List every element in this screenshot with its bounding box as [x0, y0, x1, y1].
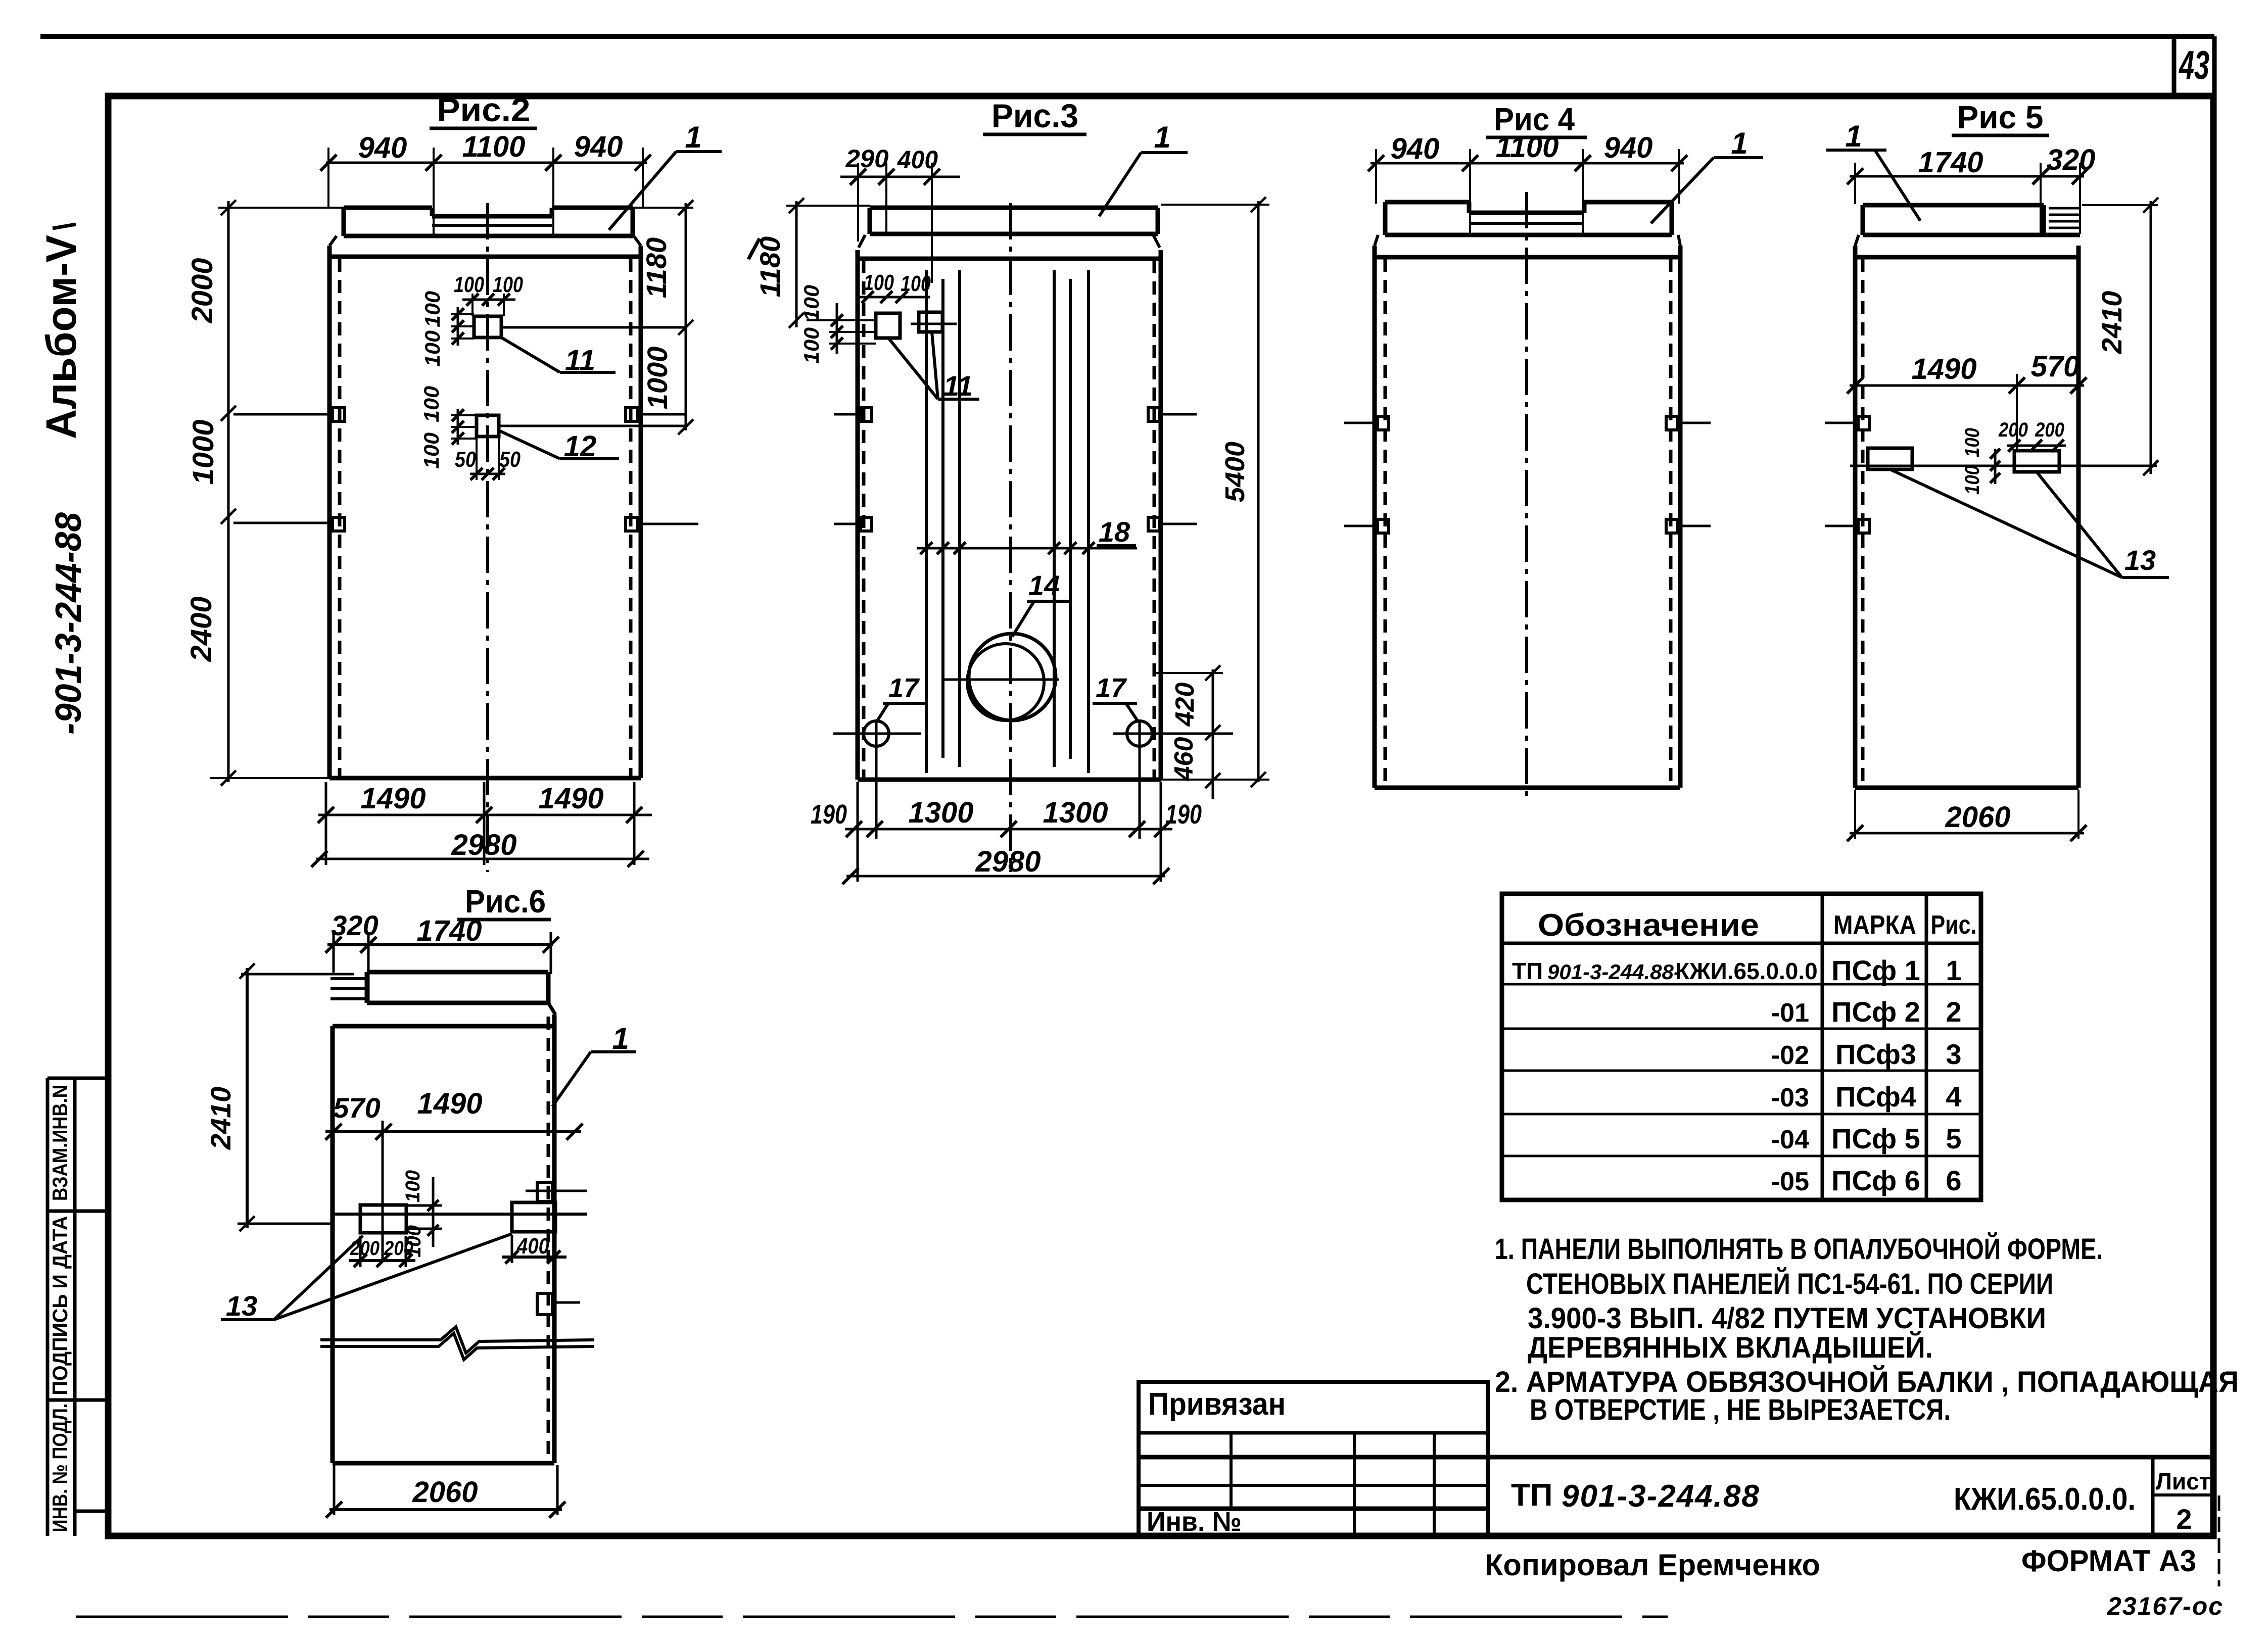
svg-text:6: 6	[1946, 1165, 1961, 1196]
svg-text:5400: 5400	[1220, 442, 1250, 502]
svg-text:2060: 2060	[1945, 801, 2010, 834]
svg-text:1490: 1490	[417, 1087, 482, 1120]
svg-text:17: 17	[888, 673, 920, 703]
svg-text:-901-3-244-88: -901-3-244-88	[49, 512, 89, 735]
svg-text:2410: 2410	[2096, 291, 2128, 355]
svg-text:50: 50	[499, 447, 521, 472]
svg-text:901-3-244.88: 901-3-244.88	[1562, 1479, 1760, 1514]
svg-text:11: 11	[565, 344, 595, 377]
svg-text:100: 100	[1961, 465, 1983, 495]
svg-text:СТЕНОВЫХ ПАНЕЛЕЙ ПС1-54-61.: СТЕНОВЫХ ПАНЕЛЕЙ ПС1-54-61. ПО СЕРИИ	[1526, 1268, 2053, 1300]
svg-text:100: 100	[420, 291, 444, 327]
svg-text:460: 460	[1169, 737, 1199, 782]
svg-text:940: 940	[358, 131, 407, 164]
svg-text:100: 100	[403, 1225, 425, 1258]
svg-text:100: 100	[454, 272, 484, 297]
svg-text:ТП: ТП	[1512, 958, 1543, 984]
svg-text:Привязан: Привязан	[1148, 1387, 1286, 1422]
svg-text:ПСф 6: ПСф 6	[1831, 1165, 1920, 1196]
svg-text:1740: 1740	[1918, 146, 1983, 179]
svg-text:1100: 1100	[1496, 131, 1559, 164]
svg-text:1: 1	[1731, 126, 1747, 160]
svg-text:190: 190	[1165, 799, 1202, 830]
svg-text:ПСф 1: ПСф 1	[1831, 954, 1920, 986]
svg-text:КЖИ.65.0.0.0.: КЖИ.65.0.0.0.	[1954, 1482, 2136, 1517]
svg-text:ТП: ТП	[1511, 1478, 1552, 1513]
svg-text:100: 100	[901, 271, 931, 296]
svg-text:290: 290	[845, 144, 888, 173]
svg-text:1: 1	[1845, 119, 1862, 153]
svg-text:570: 570	[2031, 350, 2080, 383]
svg-text:ПСф 5: ПСф 5	[1831, 1123, 1920, 1154]
svg-text:2000: 2000	[186, 258, 219, 323]
svg-text:12: 12	[564, 430, 597, 463]
svg-text:100: 100	[402, 1170, 424, 1202]
svg-text:3.900-3 ВЫП. 4/82 ПУТЕМ У: 3.900-3 ВЫП. 4/82 ПУТЕМ УСТАНОВКИ	[1528, 1302, 2046, 1335]
svg-text:570: 570	[333, 1092, 380, 1124]
svg-text:200: 200	[1998, 419, 2028, 441]
svg-text:2400: 2400	[185, 596, 218, 662]
svg-text:1490: 1490	[1911, 353, 1976, 385]
svg-text:100: 100	[1961, 428, 1983, 457]
svg-text:-05: -05	[1771, 1167, 1809, 1196]
svg-text:100: 100	[864, 270, 894, 295]
svg-text:ФОРМАТ А3: ФОРМАТ А3	[2021, 1544, 2196, 1578]
svg-text:КЖИ.65.0.0.0: КЖИ.65.0.0.0	[1675, 958, 1818, 984]
svg-text:МАРКА: МАРКА	[1833, 910, 1916, 940]
svg-text:1: 1	[1154, 120, 1170, 154]
svg-text:ИНВ. № ПОДЛ.: ИНВ. № ПОДЛ.	[48, 1404, 72, 1532]
svg-text:1490: 1490	[538, 782, 603, 815]
svg-text:18: 18	[1099, 516, 1130, 548]
svg-text:14: 14	[1028, 569, 1060, 601]
svg-text:Обозначение: Обозначение	[1538, 908, 1759, 943]
svg-text:Альбом-V: Альбом-V	[37, 235, 85, 439]
svg-text:400: 400	[516, 1234, 549, 1259]
svg-text:5: 5	[1946, 1123, 1961, 1154]
svg-text:-02: -02	[1771, 1041, 1809, 1070]
svg-text:1000: 1000	[641, 347, 673, 410]
svg-text:940: 940	[574, 130, 623, 163]
svg-text:100: 100	[419, 432, 443, 469]
svg-text:1740: 1740	[416, 914, 482, 947]
svg-text:ВЗАМ.ИНВ.N: ВЗАМ.ИНВ.N	[48, 1085, 72, 1201]
svg-text:1490: 1490	[360, 782, 426, 815]
svg-text:200: 200	[2035, 419, 2064, 441]
svg-text:1300: 1300	[908, 796, 973, 829]
svg-text:2060: 2060	[412, 1476, 478, 1509]
svg-text:2: 2	[2176, 1503, 2192, 1535]
svg-text:1000: 1000	[187, 419, 220, 485]
svg-text:ПСф3: ПСф3	[1835, 1038, 1916, 1070]
svg-text:43: 43	[2179, 42, 2209, 87]
svg-text:100: 100	[799, 285, 823, 321]
svg-text:Рис.2: Рис.2	[437, 91, 531, 128]
svg-text:400: 400	[897, 146, 938, 174]
svg-text:2410: 2410	[205, 1087, 237, 1150]
svg-text:ДЕРЕВЯННЫХ ВКЛАДЫШЕЙ.: ДЕРЕВЯННЫХ ВКЛАДЫШЕЙ.	[1528, 1331, 1933, 1364]
svg-text:1: 1	[612, 1022, 629, 1055]
svg-text:13: 13	[2124, 544, 2156, 576]
svg-text:940: 940	[1391, 132, 1440, 165]
svg-text:1180: 1180	[754, 236, 786, 297]
svg-text:190: 190	[811, 799, 847, 830]
svg-text:-01: -01	[1771, 998, 1809, 1028]
svg-text:23167-ос: 23167-ос	[2107, 1592, 2224, 1620]
svg-text:1: 1	[685, 120, 701, 154]
svg-text:200: 200	[350, 1237, 380, 1260]
svg-text:2980: 2980	[451, 829, 516, 861]
svg-text:1300: 1300	[1043, 796, 1108, 829]
svg-text:4: 4	[1946, 1081, 1961, 1113]
svg-text:100: 100	[420, 330, 444, 367]
svg-text:-04: -04	[1771, 1125, 1809, 1154]
svg-text:1100: 1100	[462, 130, 526, 163]
svg-text:ПОДПИСЬ И ДАТА: ПОДПИСЬ И ДАТА	[48, 1216, 72, 1395]
svg-text:Копировал Еремченко: Копировал Еремченко	[1485, 1548, 1820, 1582]
svg-text:11: 11	[943, 370, 973, 402]
svg-text:320: 320	[2047, 143, 2096, 176]
svg-text:Рис 5: Рис 5	[1957, 99, 2044, 135]
svg-text:1180: 1180	[640, 237, 672, 298]
svg-text:17: 17	[1096, 673, 1127, 703]
svg-text:2: 2	[1946, 996, 1961, 1028]
svg-text:1: 1	[1946, 954, 1961, 986]
svg-text:2980: 2980	[975, 845, 1041, 878]
svg-text:ПСф 2: ПСф 2	[1831, 996, 1920, 1028]
svg-text:1. ПАНЕЛИ ВЫПОЛНЯТЬ В ОПАЛУБ: 1. ПАНЕЛИ ВЫПОЛНЯТЬ В ОПАЛУБОЧНОЙ ФОРМЕ.	[1495, 1233, 2103, 1266]
svg-text:901-3-244.88-: 901-3-244.88-	[1547, 960, 1681, 984]
svg-text:100: 100	[799, 327, 823, 364]
svg-text:420: 420	[1170, 683, 1200, 727]
svg-text:940: 940	[1604, 131, 1653, 164]
svg-text:50: 50	[455, 447, 476, 472]
svg-text:Рис.: Рис.	[1931, 910, 1977, 940]
svg-text:-03: -03	[1771, 1083, 1809, 1113]
svg-text:Лист: Лист	[2156, 1468, 2211, 1494]
svg-text:320: 320	[331, 909, 378, 941]
svg-text:100: 100	[419, 386, 443, 422]
svg-text:13: 13	[226, 1290, 257, 1322]
svg-text:Рис.3: Рис.3	[991, 97, 1078, 134]
svg-text:100: 100	[493, 272, 523, 297]
svg-text:В ОТВЕРСТИЕ , НЕ ВЫРЕЗАЕТСЯ: В ОТВЕРСТИЕ , НЕ ВЫРЕЗАЕТСЯ.	[1530, 1393, 1951, 1426]
svg-text:3: 3	[1946, 1038, 1961, 1070]
svg-text:Инв. №: Инв. №	[1147, 1507, 1242, 1537]
svg-text:ПСф4: ПСф4	[1835, 1081, 1916, 1113]
